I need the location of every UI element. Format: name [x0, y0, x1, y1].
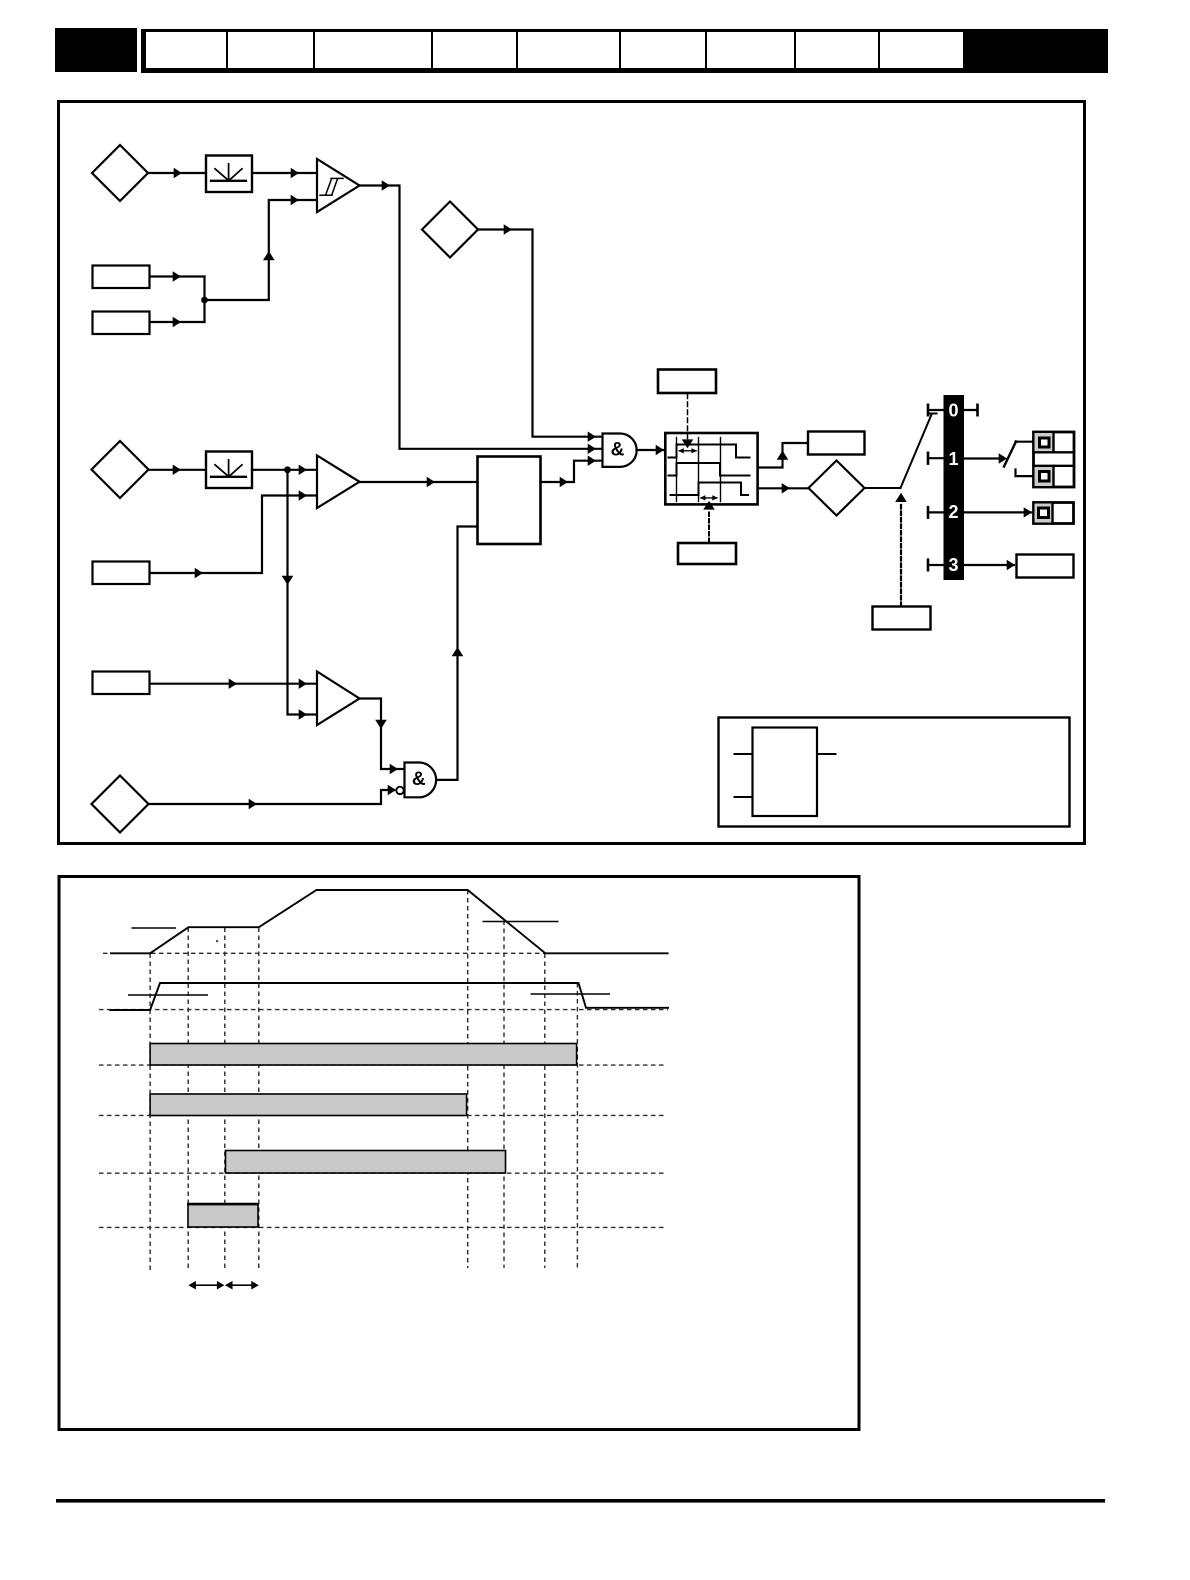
rect R7 (output parameter) [1017, 555, 1074, 578]
wire junction vertical [203, 277, 205, 323]
selector position 3 [928, 555, 1015, 575]
AND gate G1 [603, 434, 637, 467]
wire P3 to B2 [149, 469, 207, 471]
wire BR output up to gate G1 input 3 [541, 461, 603, 482]
rect R1 (parameter box) [93, 266, 150, 289]
wire PB output 2 to diamond P5 [759, 487, 809, 489]
pulse timing block PB [665, 433, 757, 504]
wire R1 to junction [150, 275, 205, 277]
diamond P1 (top-left input parameter) [92, 145, 148, 201]
PB waveform w3 [671, 483, 749, 496]
measure arrow 1 [188, 1281, 224, 1290]
switch wiper [901, 415, 932, 489]
rect T2 (parameter below PB) [678, 543, 736, 564]
rect R4 (parameter box) [93, 672, 150, 695]
wire P1 to B1 [148, 172, 206, 174]
wire B2 to U2 input 1 [252, 469, 317, 471]
inverter bubble [396, 787, 403, 794]
grey bar 2 [150, 1094, 467, 1116]
grey bar 4 [188, 1205, 258, 1228]
diamond P5 [809, 461, 865, 516]
wire U1 output down to gate G1 input 2 [360, 186, 603, 449]
selector position 1 [928, 449, 1007, 469]
diamond P3 (second input parameter) [92, 441, 149, 498]
diagram outer border [59, 102, 1085, 844]
PB inner grid line a [676, 438, 678, 502]
PB waveform w2 [669, 463, 750, 476]
minimum-speed block B2 [206, 452, 252, 489]
grey bar 1 [150, 1044, 576, 1066]
run signal waveform [110, 983, 670, 1010]
bottom page rule [56, 1499, 1105, 1503]
run label tick left [128, 994, 208, 996]
wire U2 output to big block [360, 481, 478, 483]
rect R2 (parameter box) [93, 312, 150, 335]
wire junction down to U3 input 2 [288, 470, 318, 715]
big block BR [478, 457, 541, 545]
wire G2 output up to big block [438, 527, 477, 780]
svg-text:2: 2 [948, 502, 958, 522]
measure arrow 2 [225, 1281, 259, 1290]
wire P5 to switch pivot [865, 487, 901, 489]
wire U3 output down to NAND G2 input 1 [360, 699, 405, 770]
timing outer border [59, 877, 859, 1430]
dashed link T2 to PB [708, 510, 710, 543]
PB waveform w1 [669, 445, 750, 458]
header left black box [55, 28, 137, 72]
PB inner grid line b [698, 438, 700, 502]
run label tick right [531, 993, 611, 995]
ramp label tick right [483, 921, 559, 923]
NAND gate G2 [405, 763, 437, 798]
wire R4 to U3 input 1 [150, 683, 317, 685]
grid dashed verticals [150, 890, 577, 1270]
diamond P4 (enable parameter) [92, 776, 149, 833]
legend stub left 2 [735, 796, 753, 798]
header table frame [141, 29, 1108, 73]
terminal block TB1 (changeover contacts) [1034, 432, 1075, 487]
speed ramp waveform [110, 890, 669, 953]
wire R3 up to U2 input 2 [150, 496, 317, 574]
PB delay arrow d1 [678, 448, 697, 453]
terminal block TB2 [1034, 503, 1074, 524]
comparator U3 [317, 672, 360, 726]
legend key block [753, 728, 818, 817]
legend stub left 1 [735, 753, 753, 755]
legend box [719, 718, 1070, 827]
wire P2 down to gate G1 input 1 [478, 230, 602, 437]
minimum-speed block B1 [206, 156, 252, 193]
stray dot [216, 940, 218, 942]
wire B1 to U1 input 1 [252, 172, 317, 174]
wire PB output 1 up to R5 [759, 443, 809, 468]
baseline dashed horizontals [99, 953, 668, 1227]
rect T1 (parameter above PB) [658, 370, 716, 394]
wire G1 output to pulse block [637, 449, 666, 451]
svg-text:0: 0 [948, 401, 958, 421]
PB inner grid line c [720, 438, 722, 502]
selector position 2 [928, 502, 1032, 522]
svg-text:1: 1 [948, 449, 958, 469]
selector position 0 [928, 401, 978, 421]
legend stub right [817, 753, 836, 755]
comparator U1 with hysteresis [317, 159, 360, 212]
relay contact symbol [1004, 442, 1034, 477]
dashed select link from R6 [900, 503, 902, 606]
svg-text:&: & [412, 769, 426, 790]
junction node [201, 297, 208, 304]
wire R2 to junction [150, 321, 205, 323]
ramp label tick left [132, 927, 177, 929]
comparator U2 [317, 456, 360, 509]
header cell dividers [227, 32, 879, 68]
svg-text:3: 3 [948, 555, 958, 575]
rect R6 (mode select parameter) [873, 607, 931, 630]
wire P4 to NAND G2 inverted input [149, 790, 395, 804]
junction node on B2 wire [284, 466, 291, 473]
dashed link T1 to PB [687, 394, 689, 439]
PB delay arrow d2 [700, 495, 718, 500]
selector black bar [944, 395, 965, 580]
wire junction to U1 input 2 [205, 200, 318, 300]
rect R5 (status parameter) [808, 432, 865, 455]
diamond P2 [422, 202, 478, 258]
grey bar 3 [226, 1151, 506, 1174]
svg-text:&: & [611, 440, 625, 461]
rect R3 (parameter box) [93, 562, 150, 585]
